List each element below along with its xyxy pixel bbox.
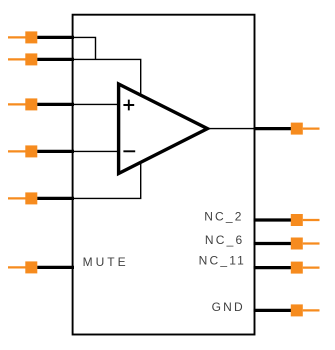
pin 3 non-inverting input (left, y=104.4) <box>8 98 74 110</box>
wire pin2 to op-amp top (V+) <box>73 59 141 97</box>
pin 5 (left, y=198.4) <box>8 192 74 204</box>
pin output VO (right, y=128.6) <box>254 123 320 135</box>
svg-text:NC_6: NC_6 <box>205 233 244 247</box>
wire non-inverting input <box>73 103 119 105</box>
op-amp U1 triangle <box>119 84 208 174</box>
label NC_6 <box>205 233 244 247</box>
op-amp minus input marker <box>123 150 135 152</box>
svg-text:NC_11: NC_11 <box>199 254 246 268</box>
pin 2 (left, y=59.4) <box>8 53 74 65</box>
pin NC_2 (right, y=220.0) <box>254 214 320 226</box>
pin 1 (left, y=37.4) <box>8 31 74 43</box>
pin 4 inverting input (left, y=151.4) <box>8 145 74 157</box>
label MUTE <box>83 255 129 269</box>
wire inverting input <box>73 150 119 152</box>
IC body outline <box>73 15 255 335</box>
svg-text:NC_2: NC_2 <box>204 210 243 224</box>
label NC_11 <box>199 254 246 268</box>
op-amp plus input marker <box>123 100 134 111</box>
wire op-amp bottom (V-) to pin5 <box>73 159 141 198</box>
label NC_2 <box>204 210 243 224</box>
pin NC_11 (right, y=267.6) <box>254 262 320 274</box>
pin GND (right, y=310.4) <box>254 304 320 316</box>
wire op-amp output <box>205 128 255 130</box>
pin MUTE (left, y=267.4) <box>8 261 74 273</box>
wire pin1 route to pin2 net <box>73 37 96 59</box>
svg-text:MUTE: MUTE <box>83 255 129 269</box>
pin NC_6 (right, y=243.5) <box>254 238 320 250</box>
label GND <box>212 300 245 314</box>
svg-text:GND: GND <box>212 300 245 314</box>
